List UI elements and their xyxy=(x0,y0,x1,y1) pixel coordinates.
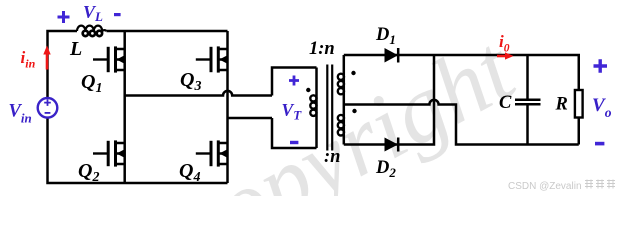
svg-text:Q1: Q1 xyxy=(81,71,102,96)
svg-text:VL: VL xyxy=(83,2,103,24)
svg-text:Vin: Vin xyxy=(9,102,32,126)
svg-text:Q3: Q3 xyxy=(180,69,201,94)
svg-text:Q4: Q4 xyxy=(179,160,200,185)
svg-text::n: :n xyxy=(324,147,340,167)
svg-text:L: L xyxy=(69,38,82,60)
svg-text:iin: iin xyxy=(21,48,36,71)
svg-text:Vo: Vo xyxy=(592,95,612,120)
svg-text:CSDN @Zevalin: CSDN @Zevalin xyxy=(508,181,582,192)
svg-text:1:n: 1:n xyxy=(309,39,335,59)
svg-text:R: R xyxy=(555,95,568,115)
svg-text:VT: VT xyxy=(282,100,303,123)
svg-text:C: C xyxy=(499,93,512,113)
svg-text:i0: i0 xyxy=(499,32,510,55)
svg-text:Q2: Q2 xyxy=(78,160,99,185)
svg-text:D1: D1 xyxy=(375,25,396,47)
